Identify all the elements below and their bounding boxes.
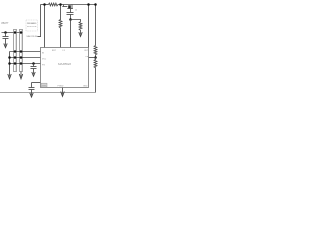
svg-text:IN: IN [42,53,45,55]
capacitor C2 (x33.5) [33,64,35,67]
wire node A to R3 [71,20,81,22]
node A [69,18,72,21]
ground arrow under R3 [79,32,82,36]
svg-text:BST: BST [52,50,57,52]
wire stub under B2 [20,72,22,77]
capacitor C3 (x31.5) [31,83,33,88]
svg-text:MAX8622: MAX8622 [58,62,71,66]
svg-text:MAX 123 456: MAX 123 456 [27,35,39,38]
wire leader tick [38,36,41,38]
wire top rail [41,4,49,6]
capacitor C4 [70,9,72,13]
wire node A down to IC [70,20,72,48]
ground arrow IC bottom [61,92,65,97]
svg-text:GND: GND [83,86,88,88]
wire inner line B1 [15,30,17,71]
resistor R1 (top rail horizontal) [49,3,59,6]
node dots on top rail [43,3,46,6]
resistor R5 (feedback bottom, x95.5) [94,58,97,93]
svg-text:PGND: PGND [58,86,64,88]
wire IC bottom ground stub [62,88,64,95]
wire row y51.5 [10,51,41,53]
svg-text:VBATT: VBATT [1,22,9,25]
wire bottom ground rail [0,92,96,94]
resistor R4 (feedback top, x95.5) [94,46,97,58]
ground arrow left bus [8,74,11,79]
capacitor C1 (input) [5,33,7,37]
ground arrow C2 [32,72,35,76]
svg-text:LX: LX [63,50,66,52]
ground arrow input cap [4,43,7,47]
wire pin stub top x44.5 [44,5,46,48]
svg-text:MODULE: MODULE [27,26,37,28]
wire right rail x88.5 [88,5,90,48]
wire IC left pin y82.5 [32,82,41,84]
svg-text:VCC: VCC [42,59,47,61]
text pin label AGND tag box [41,83,47,87]
svg-text:GND: GND [42,85,47,87]
diode D1 [63,5,65,7]
wire FB to IC [89,57,96,59]
module B2 (cell stack 2) [20,30,23,72]
wire input row y32.5 [2,32,23,34]
svg-text:PG: PG [42,65,45,67]
resistor R3 (vertical x80.5) [79,22,82,35]
wire row y63.5 [10,63,41,65]
node input [4,31,7,34]
wire inner line B2 [21,30,23,71]
svg-text:1k: 1k [75,10,77,12]
node FB [94,56,97,59]
wire row y57.5 [10,57,41,59]
wire right rail x95.5 [95,5,97,46]
node dots rows in modules [14,50,17,53]
op-amp U1 MAX8622 IC box [41,48,89,88]
ground arrow under B2 [19,74,22,79]
svg-text:INTEGRATED: INTEGRATED [27,22,37,25]
wire left bus vertical [9,52,11,77]
node dots row y32.5 [14,31,17,34]
module B1 (cell stack 1) [14,30,17,72]
ground arrow C3 [30,93,33,97]
resistor R2 (vertical x60.5) [59,5,62,48]
dashed module note box [26,20,38,31]
node VOUT branch line [40,5,42,38]
